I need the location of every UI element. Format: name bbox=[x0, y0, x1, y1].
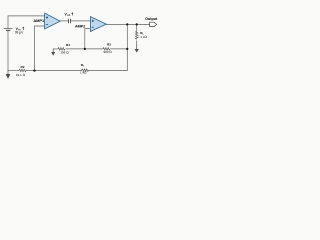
svg-text:196 Ω: 196 Ω bbox=[60, 50, 69, 54]
svg-text:AMP2: AMP2 bbox=[75, 24, 85, 28]
background bbox=[0, 0, 160, 90]
wire bottom feedback run (ground to R2 to R1 to x=127.3) bbox=[8, 69, 19, 71]
wire Vin bottom down left side bbox=[7, 31, 9, 70]
voltage source Vin (battery) bbox=[4, 29, 13, 31]
output terminal bbox=[150, 22, 157, 26]
wire AMP1 output to capacitor bbox=[60, 20, 68, 22]
ground (bottom left, down arrow) bbox=[6, 70, 11, 79]
svg-text:99 µV: 99 µV bbox=[15, 31, 24, 35]
wire capacitor to AMP2 + input bbox=[71, 20, 91, 22]
wire R4/R3 horizontal run bbox=[53, 48, 58, 50]
junction (output node top) bbox=[126, 23, 128, 25]
capacitor (interstage coupling) bbox=[69, 19, 71, 24]
svg-text:R4: R4 bbox=[66, 43, 70, 47]
svg-text:R2: R2 bbox=[21, 65, 25, 69]
svg-text:1 kΩ: 1 kΩ bbox=[140, 35, 147, 39]
wire AMP2 inverting input bbox=[85, 29, 91, 49]
svg-text:19.1 Ω: 19.1 Ω bbox=[16, 73, 26, 77]
wire Vin top to AMP1 + input bbox=[8, 16, 45, 28]
resistor RL (vertical) bbox=[135, 31, 138, 39]
wire AMP1 inverting feedback bbox=[35, 26, 45, 70]
resistor R3 bbox=[103, 48, 110, 51]
ground (below RL, down arrow) bbox=[135, 45, 139, 53]
resistor R4 bbox=[58, 48, 65, 51]
svg-text:980 Ω: 980 Ω bbox=[103, 50, 112, 54]
svg-text:Output: Output bbox=[145, 17, 158, 21]
ground (R4 left end, down arrow) bbox=[51, 49, 55, 56]
wire AMP2 output to terminal bbox=[106, 23, 150, 25]
op-amp AMP1 bbox=[45, 13, 61, 29]
op-amp AMP2 bbox=[90, 17, 106, 32]
wire RL bottom to ground bbox=[136, 41, 138, 45]
junction (output to RL) bbox=[136, 23, 138, 25]
resistor R2 bbox=[19, 69, 26, 72]
junction (AMP1 feedback tap) bbox=[33, 70, 35, 72]
junction (R3 to feedback vertical) bbox=[126, 48, 128, 50]
svg-text:Vo1: Vo1 bbox=[65, 13, 71, 18]
resistor R1 bbox=[82, 69, 89, 72]
svg-text:R3: R3 bbox=[107, 43, 111, 47]
svg-text:1 kΩ: 1 kΩ bbox=[80, 71, 87, 75]
junction (AMP2 inverting tap) bbox=[84, 48, 86, 50]
wire RL top bbox=[136, 24, 138, 31]
svg-text:AMP1: AMP1 bbox=[33, 18, 45, 23]
wire vertical output node down to R3 / bottom feedback bbox=[126, 24, 128, 70]
